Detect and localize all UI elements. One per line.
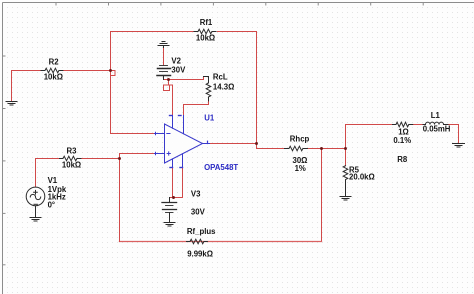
svg-text:V3: V3 bbox=[191, 190, 201, 199]
svg-text:R8: R8 bbox=[397, 155, 408, 164]
svg-text:OPA548T: OPA548T bbox=[204, 163, 238, 172]
resistor Rhcp bbox=[285, 146, 308, 151]
svg-text:Rhcp: Rhcp bbox=[290, 135, 310, 144]
resistor R5 bbox=[343, 166, 348, 196]
svg-text:30V: 30V bbox=[171, 66, 186, 75]
wire: R2 right to node J1 bbox=[63, 70, 111, 72]
resistor Rf1 bbox=[194, 29, 216, 34]
svg-text:0°: 0° bbox=[48, 201, 55, 210]
wire: J2 jog to non-inverting input bbox=[120, 154, 155, 159]
wire: RcL bottom to op-amp pin bbox=[184, 99, 209, 116]
op-amp inverting input lead (pin tick) bbox=[155, 133, 165, 135]
svg-text:Rf_plus: Rf_plus bbox=[187, 227, 216, 236]
op-amp top pin Ilim bbox=[183, 116, 185, 134]
svg-text:10kΩ: 10kΩ bbox=[44, 72, 63, 81]
battery V3 bbox=[162, 202, 177, 204]
wire: op-amp output to feedback node bbox=[210, 143, 257, 145]
svg-text:U1: U1 bbox=[204, 113, 215, 122]
resistor R3 bbox=[60, 156, 81, 161]
wire: J1 down to inverting input bbox=[111, 133, 155, 135]
resistor RcL bbox=[204, 77, 211, 101]
wire: R3 right to node J2 bbox=[81, 158, 120, 160]
svg-text:30V: 30V bbox=[191, 208, 206, 217]
svg-text:0.05mH: 0.05mH bbox=[423, 124, 451, 133]
wire: Rhcp right to node at R5 top bbox=[308, 148, 346, 150]
resistor Rf_plus bbox=[187, 239, 208, 244]
wire: L1 right to ground3 bbox=[448, 125, 459, 144]
wire: vertical J1 up to Rf1 top rail bbox=[111, 32, 195, 134]
op-amp U1 triangle body bbox=[165, 124, 203, 163]
wire: R8 to L1 bbox=[412, 124, 424, 126]
wire: node down to bottom feedback rail bbox=[321, 149, 323, 242]
op-amp plus mark bbox=[167, 152, 170, 155]
svg-text:20.0kΩ: 20.0kΩ bbox=[349, 173, 375, 182]
op-amp U1 bbox=[155, 116, 210, 168]
svg-text:10kΩ: 10kΩ bbox=[196, 33, 215, 42]
svg-text:1%: 1% bbox=[295, 164, 306, 173]
wire: V1 top to R3 left bbox=[36, 159, 60, 188]
junction output node bbox=[255, 142, 258, 145]
junction V3 top bbox=[172, 196, 175, 199]
resistor R2 bbox=[41, 68, 63, 73]
wire: bottom feedback rail bbox=[120, 241, 322, 243]
svg-text:0.1%: 0.1% bbox=[393, 136, 411, 145]
junction J2 bbox=[118, 157, 121, 160]
wire: V2 bottom to RcL top bbox=[169, 77, 204, 80]
wire: ground1 to R2 left bbox=[12, 71, 42, 102]
junction R5 node bbox=[344, 147, 347, 150]
wire: node down to R5 bbox=[345, 149, 347, 166]
svg-text:R3: R3 bbox=[67, 147, 78, 156]
op-amp bottom pin V- bbox=[172, 159, 174, 168]
wire: J2 down left side of bottom rail bbox=[119, 159, 121, 242]
inductor L1 bbox=[423, 122, 448, 124]
wire: ground2 to V2 top bbox=[163, 48, 165, 66]
ground1 left bbox=[6, 101, 17, 103]
wire: node up to top-right branch bbox=[346, 125, 393, 149]
op-amp bottom pin E/S bbox=[182, 154, 184, 168]
op-amp minus mark bbox=[167, 133, 170, 135]
svg-text:RcL: RcL bbox=[213, 72, 228, 81]
wire: V2 bottom hook to op-amp V+ pin bbox=[164, 80, 173, 116]
svg-text:9.99kΩ: 9.99kΩ bbox=[187, 250, 213, 259]
ground4 below R5 bbox=[345, 194, 347, 197]
wire: J1 jog bump bbox=[111, 71, 116, 76]
op-amp top pin V+ bbox=[172, 116, 174, 129]
resistor R8 bbox=[393, 122, 413, 127]
op-amp non-inverting input lead (pin tick) bbox=[155, 153, 165, 155]
svg-text:L1: L1 bbox=[431, 111, 441, 120]
svg-text:V1: V1 bbox=[48, 176, 58, 185]
battery V2 bbox=[160, 65, 168, 67]
svg-text:R2: R2 bbox=[49, 57, 60, 66]
junction Rhcp-right feedback node bbox=[320, 147, 323, 150]
junction V2 bottom bbox=[167, 78, 170, 81]
source V1 bbox=[26, 187, 45, 206]
svg-text:10kΩ: 10kΩ bbox=[62, 161, 81, 170]
svg-text:14.3Ω: 14.3Ω bbox=[213, 83, 234, 92]
op-amp output lead (pin tick) bbox=[203, 143, 210, 145]
wire: Rf1 right, down to output node, to Rhcp bbox=[218, 32, 285, 149]
ground2 above V2 (inverted) bbox=[162, 41, 165, 43]
junction J1 bbox=[109, 69, 112, 72]
wire: op-amp bottom pins to V3 bbox=[172, 168, 174, 198]
svg-text:V2: V2 bbox=[171, 57, 181, 66]
ground5 below V3 bbox=[164, 222, 175, 224]
ground below V1 bbox=[35, 206, 37, 217]
svg-text:Rf1: Rf1 bbox=[200, 18, 213, 27]
ground3 right of L1 bbox=[453, 143, 465, 145]
